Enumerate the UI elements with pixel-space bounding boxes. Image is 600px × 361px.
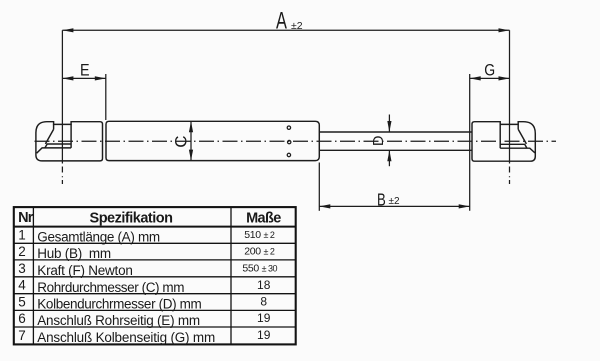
dimension G line <box>470 77 510 79</box>
svg-text:200 ± 2: 200 ± 2 <box>244 246 275 258</box>
dimension C arrow up <box>189 121 193 132</box>
dimension A arrow left <box>62 28 73 32</box>
tube end hole dot bottom <box>287 153 290 156</box>
right fitting eye tab long vertical <box>499 124 501 148</box>
svg-text:Hub (B) mm: Hub (B) mm <box>37 246 111 261</box>
svg-text:C: C <box>171 135 190 147</box>
table row line 3 <box>14 276 296 278</box>
svg-text:Nr: Nr <box>18 210 34 226</box>
table header bottom line <box>14 226 296 228</box>
left eye centerline lower dash-dot <box>61 167 63 185</box>
svg-text:Kolbendurchrmesser (D) mm: Kolbendurchrmesser (D) mm <box>37 297 201 312</box>
tube (cylinder C) <box>106 121 319 160</box>
svg-text:4: 4 <box>18 278 26 293</box>
dimension C line <box>190 121 192 160</box>
tube end hole dot middle <box>288 140 291 143</box>
left fitting ledge lower <box>37 148 72 153</box>
left fitting eye tab short vertical <box>53 124 55 129</box>
svg-text:Anschluß Rohrseitig (E) mm: Anschluß Rohrseitig (E) mm <box>37 313 200 328</box>
svg-text:Anschluß Kolbenseitig (G) mm: Anschluß Kolbenseitig (G) mm <box>37 330 215 345</box>
dimension A line <box>62 29 509 31</box>
right fitting eye tab short vertical <box>517 124 519 129</box>
dimension A right extension / right eye centerline (solid) <box>509 30 511 163</box>
table row line 1 <box>14 242 296 244</box>
right fitting ledge upper <box>500 144 527 148</box>
svg-text:3: 3 <box>18 261 26 276</box>
svg-text:G: G <box>484 62 495 80</box>
svg-text:Gesamtlänge (A) mm: Gesamtlänge (A) mm <box>37 230 160 245</box>
svg-text:19: 19 <box>257 328 271 342</box>
svg-text:8: 8 <box>260 295 267 309</box>
svg-text:B: B <box>377 190 386 209</box>
svg-text:Spezifikation: Spezifikation <box>90 211 173 227</box>
svg-text:7: 7 <box>18 328 26 343</box>
left fitting ledge upper <box>45 144 71 148</box>
table row line 4 <box>14 293 296 295</box>
svg-text:±2: ±2 <box>389 196 400 207</box>
svg-text:19: 19 <box>257 311 271 325</box>
dimension B arrow left <box>319 204 330 208</box>
svg-text:Kraft (F) Newton: Kraft (F) Newton <box>37 263 132 278</box>
dimension E extension line (tube left edge extended) <box>105 74 107 120</box>
right fitting ledge lower <box>500 148 535 153</box>
right eyelet fitting body <box>472 122 535 162</box>
svg-text:2: 2 <box>18 244 26 259</box>
dimension B line <box>319 205 469 207</box>
svg-text:A: A <box>276 7 287 34</box>
svg-text:1: 1 <box>18 227 26 242</box>
svg-text:18: 18 <box>257 278 271 292</box>
left fitting eye tab long vertical <box>70 124 72 147</box>
dimension G arrow left <box>470 76 481 80</box>
table column divider Nr <box>32 207 34 344</box>
table row line 2 <box>14 259 296 261</box>
specification table outer border <box>14 207 296 344</box>
svg-text:±2: ±2 <box>291 20 303 32</box>
svg-text:5: 5 <box>18 294 26 309</box>
left eyelet fitting body <box>36 122 103 161</box>
dimension E arrow right <box>95 76 106 80</box>
dimension G extension line (rod end extended, shared with B) <box>469 74 471 211</box>
tube end hole dot top <box>287 126 290 129</box>
svg-text:Rohrdurchmesser (C) mm: Rohrdurchmesser (C) mm <box>37 280 184 295</box>
dimension D line lower <box>388 151 390 166</box>
right eye centerline lower dash-dot <box>509 167 511 185</box>
piston rod bottom line <box>319 149 472 151</box>
left fitting eye hole diagonal <box>45 130 53 144</box>
table row line 5 <box>14 309 296 311</box>
svg-text:D: D <box>371 135 387 145</box>
dimension B extension line left (below tube right edge) <box>318 163 320 211</box>
svg-text:6: 6 <box>18 311 26 326</box>
dimension C arrow down <box>189 150 193 161</box>
table column divider Masse <box>230 207 232 344</box>
table row line 6 <box>14 326 296 328</box>
svg-text:E: E <box>80 62 90 80</box>
dimension G arrow right <box>499 76 510 80</box>
dimension D line upper <box>388 115 390 132</box>
dimension B arrow right <box>459 204 470 208</box>
svg-text:550 ± 30: 550 ± 30 <box>242 263 277 275</box>
dimension E arrow left <box>62 76 73 80</box>
svg-text:Maße: Maße <box>246 210 281 226</box>
dimension A arrow right <box>499 28 510 32</box>
main horizontal centerline dash-dot <box>35 140 557 142</box>
dimension E line <box>62 77 105 79</box>
dimension D arrow up (to rod bottom) <box>387 150 391 161</box>
piston rod top line <box>319 131 472 133</box>
right fitting eye hole diagonal <box>518 130 526 144</box>
dimension A left extension / left eye centerline (solid) <box>61 30 63 163</box>
dimension D arrow down (to rod top) <box>387 121 391 132</box>
svg-text:510 ± 2: 510 ± 2 <box>244 229 275 241</box>
